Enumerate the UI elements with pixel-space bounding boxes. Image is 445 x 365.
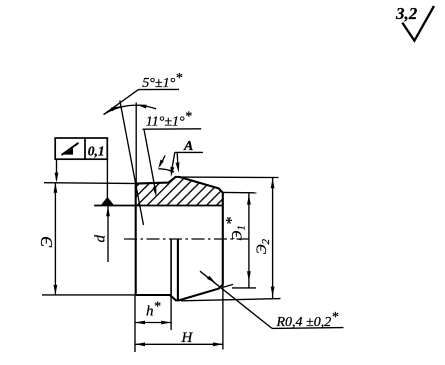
svg-text:0,1: 0,1 — [88, 143, 105, 158]
svg-text:Э: Э — [37, 237, 56, 248]
svg-text:11°±1°*: 11°±1°* — [146, 110, 192, 130]
svg-text:5°±1°*: 5°±1°* — [142, 71, 182, 91]
svg-text:d: d — [93, 235, 109, 243]
svg-text:Э1*: Э1* — [224, 217, 248, 240]
svg-text:h*: h* — [146, 300, 161, 320]
svg-text:R0,4 ±0,2*: R0,4 ±0,2* — [276, 310, 339, 330]
svg-text:H: H — [181, 330, 194, 346]
svg-text:3,2: 3,2 — [395, 4, 418, 23]
svg-text:Э2: Э2 — [254, 238, 272, 254]
